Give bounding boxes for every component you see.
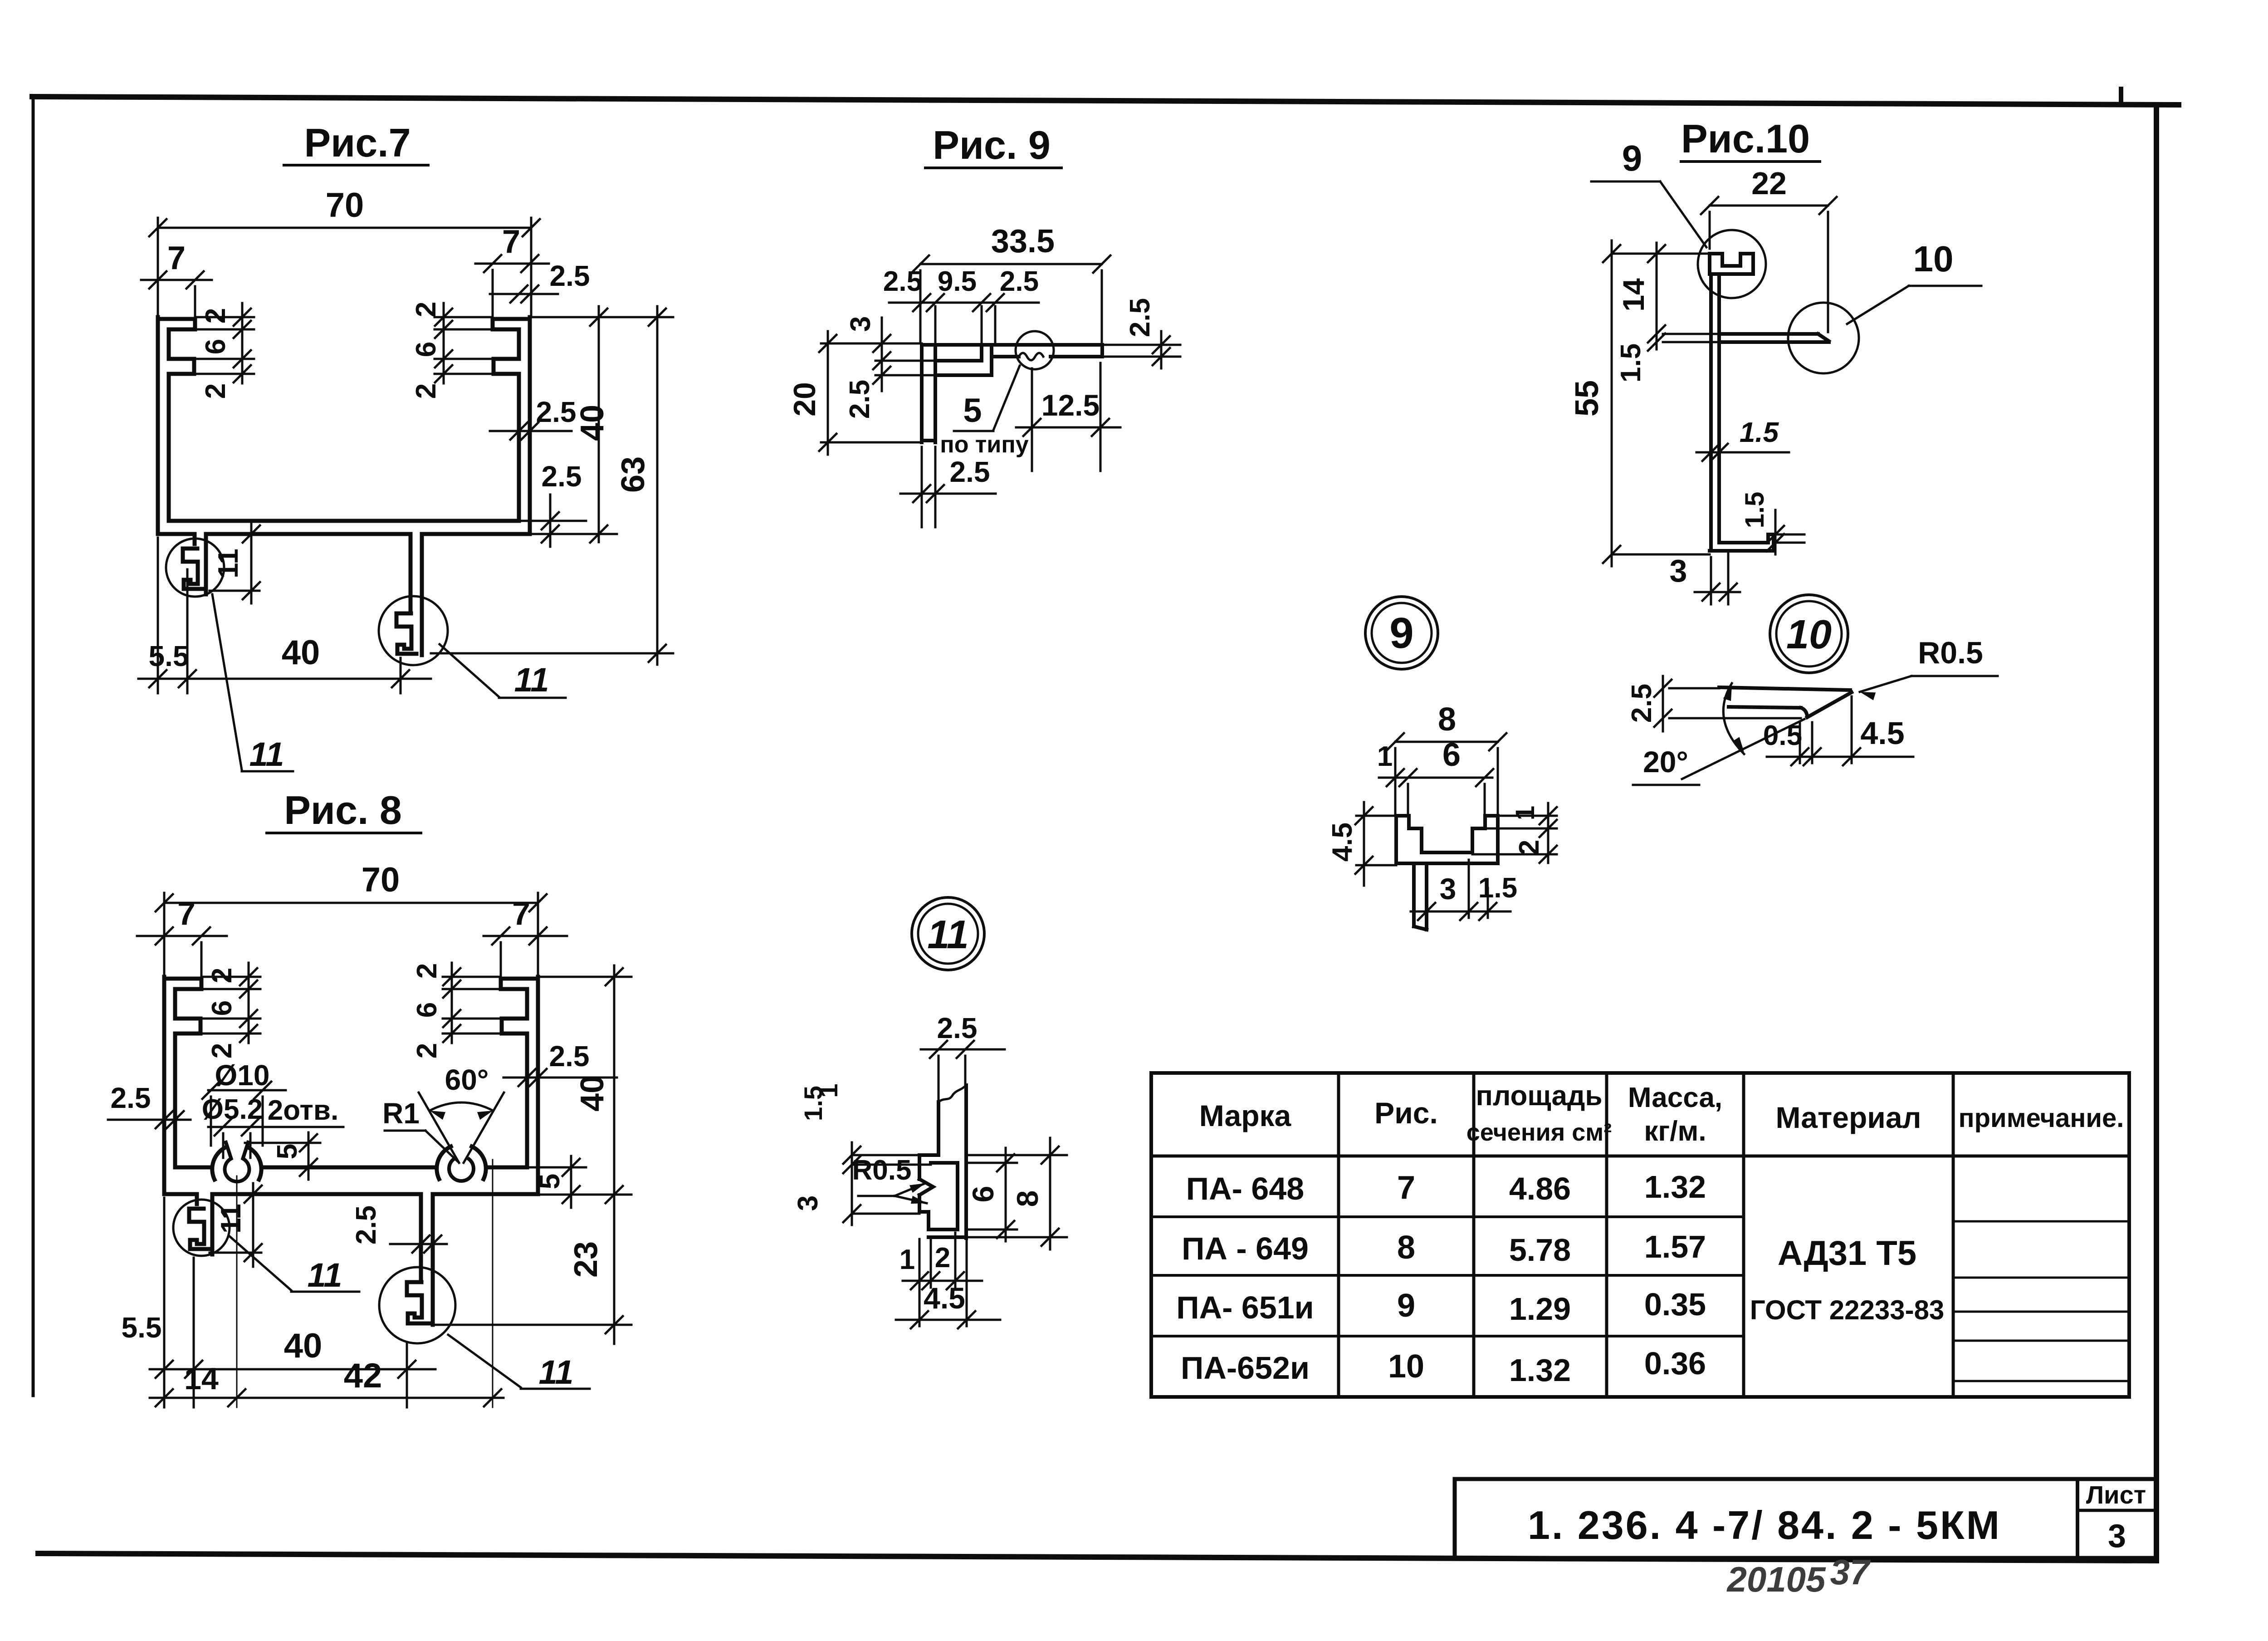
svg-text:33.5: 33.5 <box>991 223 1055 260</box>
svg-text:9: 9 <box>1622 138 1642 178</box>
svg-text:11: 11 <box>213 549 244 578</box>
svg-text:11: 11 <box>927 912 968 957</box>
svg-text:5.5: 5.5 <box>122 1311 162 1344</box>
svg-text:7: 7 <box>502 224 520 260</box>
svg-text:4.5: 4.5 <box>1327 823 1358 862</box>
svg-text:40: 40 <box>284 1327 323 1365</box>
svg-text:2.5: 2.5 <box>111 1082 151 1114</box>
svg-text:Ø5.2: Ø5.2 <box>202 1094 263 1125</box>
svg-text:1: 1 <box>899 1244 915 1275</box>
svg-text:6: 6 <box>411 342 442 357</box>
svg-text:Материал: Материал <box>1775 1101 1921 1134</box>
svg-text:5: 5 <box>534 1174 566 1189</box>
svg-text:ПА- 651и: ПА- 651и <box>1176 1290 1314 1325</box>
svg-text:10: 10 <box>1786 612 1832 657</box>
svg-text:1.57: 1.57 <box>1644 1229 1706 1264</box>
svg-text:Масса,: Масса, <box>1628 1082 1722 1113</box>
svg-text:4.86: 4.86 <box>1509 1171 1571 1206</box>
svg-text:6: 6 <box>200 339 231 354</box>
svg-text:3: 3 <box>2108 1518 2126 1554</box>
svg-text:11: 11 <box>215 1204 247 1234</box>
svg-text:1. 236. 4 -7/ 84. 2 - 5КМ: 1. 236. 4 -7/ 84. 2 - 5КМ <box>1528 1503 2001 1548</box>
svg-text:7: 7 <box>167 240 186 276</box>
svg-text:2.5: 2.5 <box>542 460 582 493</box>
svg-text:2.5: 2.5 <box>1000 266 1039 297</box>
svg-text:2.5: 2.5 <box>883 266 922 297</box>
svg-text:2.5: 2.5 <box>549 1040 590 1073</box>
svg-text:ПА - 649: ПА - 649 <box>1182 1231 1309 1266</box>
svg-text:2.5: 2.5 <box>844 380 875 419</box>
svg-text:20°: 20° <box>1643 745 1688 779</box>
svg-text:10: 10 <box>1913 239 1954 279</box>
svg-text:40: 40 <box>282 633 320 672</box>
svg-text:3: 3 <box>1440 872 1457 906</box>
svg-text:40: 40 <box>574 405 611 441</box>
svg-text:Лист: Лист <box>2086 1480 2146 1509</box>
svg-text:6: 6 <box>411 1002 443 1018</box>
svg-text:2: 2 <box>206 968 238 983</box>
svg-text:Рис.: Рис. <box>1374 1096 1438 1130</box>
svg-text:0.35: 0.35 <box>1644 1287 1706 1322</box>
svg-text:6: 6 <box>206 1000 238 1016</box>
svg-text:сечения см²: сечения см² <box>1466 1119 1612 1146</box>
svg-text:5: 5 <box>272 1144 303 1159</box>
svg-text:2: 2 <box>1514 840 1545 855</box>
svg-text:Рис. 9: Рис. 9 <box>933 122 1051 167</box>
svg-text:R0.5: R0.5 <box>1918 636 1983 670</box>
svg-text:7: 7 <box>512 896 530 932</box>
svg-text:5: 5 <box>963 392 982 429</box>
svg-text:37: 37 <box>1830 1552 1871 1592</box>
svg-text:5.5: 5.5 <box>149 640 189 672</box>
svg-text:1.5: 1.5 <box>1615 343 1647 382</box>
svg-text:1: 1 <box>1510 806 1540 820</box>
svg-text:14: 14 <box>1617 278 1650 312</box>
svg-text:1.5: 1.5 <box>1740 492 1769 529</box>
svg-text:1: 1 <box>1377 741 1393 772</box>
svg-text:3: 3 <box>792 1195 824 1211</box>
svg-text:7: 7 <box>177 896 196 932</box>
svg-text:2.5: 2.5 <box>950 456 990 488</box>
svg-text:Рис. 8: Рис. 8 <box>284 788 402 833</box>
svg-text:1.5: 1.5 <box>1478 872 1517 904</box>
svg-text:примечание.: примечание. <box>1959 1103 2124 1133</box>
svg-text:11: 11 <box>249 735 284 773</box>
svg-text:ПА- 648: ПА- 648 <box>1186 1171 1304 1206</box>
svg-text:9.5: 9.5 <box>938 266 977 297</box>
svg-text:11: 11 <box>308 1256 342 1294</box>
svg-text:4.5: 4.5 <box>1860 715 1904 751</box>
svg-text:ГОСТ 22233-83: ГОСТ 22233-83 <box>1750 1295 1945 1325</box>
svg-text:2.5: 2.5 <box>351 1205 382 1244</box>
svg-text:8: 8 <box>1438 701 1456 738</box>
svg-text:20: 20 <box>787 382 822 416</box>
svg-text:1.32: 1.32 <box>1509 1352 1571 1388</box>
svg-text:2: 2 <box>411 383 442 399</box>
svg-text:12.5: 12.5 <box>1041 388 1100 422</box>
svg-text:11: 11 <box>539 1353 574 1391</box>
svg-text:кг/м.: кг/м. <box>1644 1116 1706 1147</box>
svg-text:23: 23 <box>568 1241 604 1278</box>
svg-text:3: 3 <box>1670 553 1687 588</box>
svg-text:2: 2 <box>200 383 231 399</box>
svg-text:22: 22 <box>1751 166 1787 201</box>
svg-text:ПА-652и: ПА-652и <box>1181 1350 1310 1386</box>
svg-text:55: 55 <box>1569 380 1605 416</box>
svg-text:9: 9 <box>1397 1288 1415 1324</box>
svg-text:2: 2 <box>206 1043 238 1058</box>
svg-text:9: 9 <box>1389 609 1413 657</box>
svg-text:70: 70 <box>326 186 364 225</box>
svg-text:4.5: 4.5 <box>924 1281 965 1315</box>
svg-text:Рис.10: Рис.10 <box>1681 116 1810 161</box>
svg-text:10: 10 <box>1388 1348 1424 1385</box>
svg-text:8: 8 <box>1011 1190 1044 1207</box>
svg-text:1: 1 <box>814 1083 843 1097</box>
svg-text:R0.5: R0.5 <box>852 1155 912 1186</box>
svg-text:60°: 60° <box>445 1063 489 1096</box>
svg-text:2: 2 <box>411 1043 443 1058</box>
svg-text:40: 40 <box>574 1075 611 1112</box>
svg-text:14: 14 <box>184 1362 219 1396</box>
svg-text:70: 70 <box>362 861 400 899</box>
svg-text:63: 63 <box>615 456 651 493</box>
svg-text:1.5: 1.5 <box>1740 417 1779 448</box>
svg-text:Рис.7: Рис.7 <box>304 120 411 165</box>
svg-text:2: 2 <box>935 1242 950 1274</box>
svg-text:0.36: 0.36 <box>1644 1346 1706 1381</box>
svg-text:8: 8 <box>1397 1230 1415 1266</box>
svg-text:АД31 Т5: АД31 Т5 <box>1778 1234 1916 1273</box>
svg-text:2.5: 2.5 <box>1124 298 1156 337</box>
svg-text:1.32: 1.32 <box>1644 1169 1706 1205</box>
svg-text:Марка: Марка <box>1199 1099 1292 1132</box>
svg-text:2: 2 <box>411 302 442 317</box>
svg-text:2.5: 2.5 <box>1626 684 1657 723</box>
svg-text:2отв.: 2отв. <box>268 1095 339 1126</box>
svg-text:5.78: 5.78 <box>1509 1232 1571 1268</box>
svg-text:3: 3 <box>845 316 876 332</box>
svg-text:2.5: 2.5 <box>536 396 577 428</box>
svg-text:площадь: площадь <box>1476 1080 1603 1112</box>
svg-text:6: 6 <box>1442 737 1461 773</box>
svg-text:2: 2 <box>200 308 231 323</box>
svg-text:6: 6 <box>966 1186 1000 1203</box>
svg-text:1.29: 1.29 <box>1509 1291 1571 1327</box>
svg-text:2.5: 2.5 <box>937 1012 978 1044</box>
svg-text:11: 11 <box>514 661 549 699</box>
svg-text:7: 7 <box>1397 1170 1415 1206</box>
svg-text:20105: 20105 <box>1726 1559 1827 1599</box>
svg-text:R1: R1 <box>382 1097 420 1130</box>
svg-text:2.5: 2.5 <box>550 260 590 292</box>
svg-text:по типу: по типу <box>940 431 1028 458</box>
svg-text:2: 2 <box>411 963 443 979</box>
svg-text:Ø10: Ø10 <box>215 1059 270 1092</box>
svg-text:42: 42 <box>344 1357 382 1395</box>
